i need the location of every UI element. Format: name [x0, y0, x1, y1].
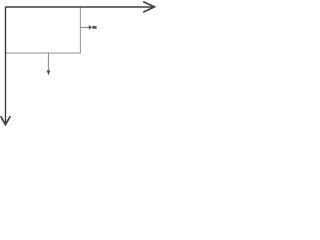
wire: horizontal axis line — [6, 6, 154, 8]
box (rectangle attached at origin) — [6, 7, 81, 53]
small arrow down: solid head — [47, 70, 51, 75]
arrowhead: vertical axis open chevron — [1, 117, 10, 125]
small arrow right: solid head — [89, 25, 92, 30]
small arrow down: stem — [47, 53, 49, 71]
arrowhead: horizontal axis open chevron — [144, 2, 155, 12]
small arrow right: stem — [80, 26, 89, 28]
label dash after right arrow — [92, 26, 96, 29]
wire: vertical axis line — [5, 7, 7, 123]
